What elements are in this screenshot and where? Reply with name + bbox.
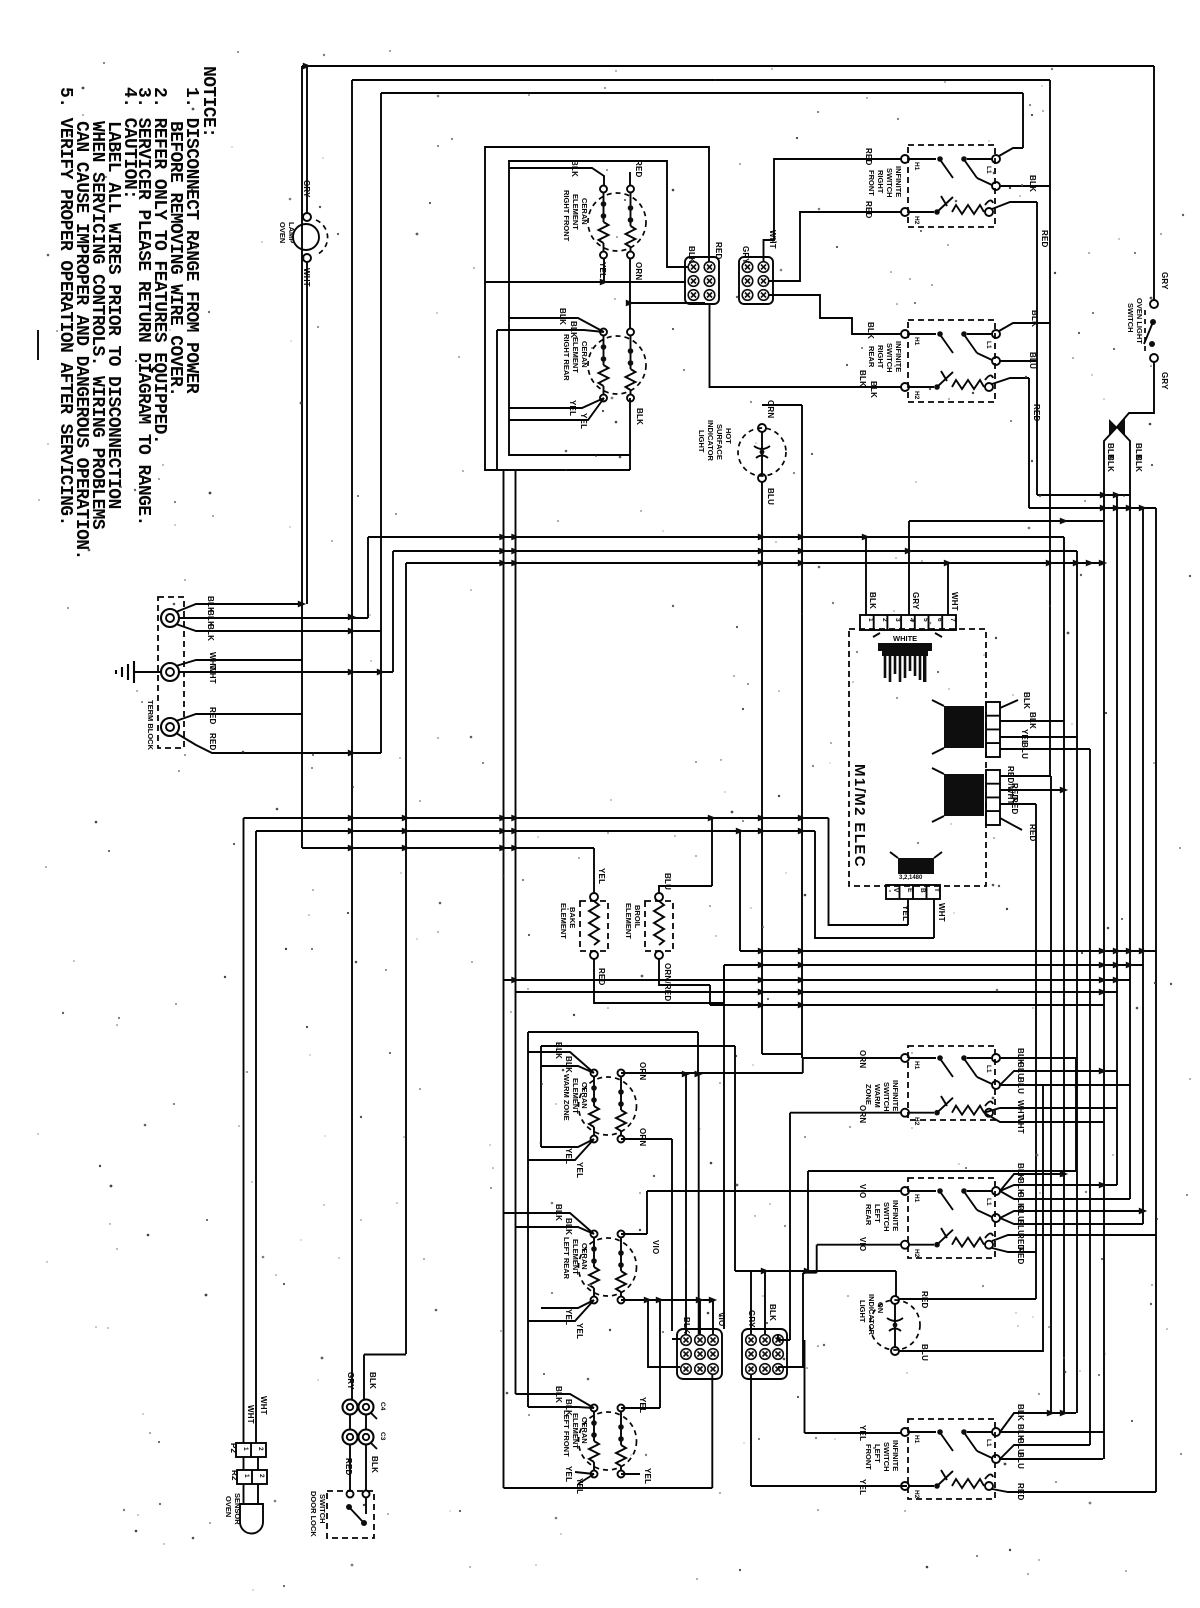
svg-text:WHT: WHT (246, 1405, 255, 1424)
svg-text:LIGHT: LIGHT (697, 430, 706, 453)
svg-text:RED: RED (864, 148, 873, 166)
svg-text:BLK: BLK (1028, 175, 1037, 192)
wire right riser RED/WHT net (1050, 776, 1052, 1413)
svg-text:YEL: YEL (638, 1397, 647, 1413)
svg-text:R2: R2 (230, 1470, 239, 1481)
svg-text:YEL: YEL (643, 1468, 652, 1484)
infinite switch left rear (901, 1178, 1000, 1258)
svg-text:BLK: BLK (554, 1204, 563, 1221)
svg-text:BLU: BLU (766, 488, 775, 505)
ceran element left rear (579, 1231, 637, 1304)
svg-text:INFINITE: INFINITE (891, 1080, 900, 1111)
wire BLK feed L2 (second line) (352, 80, 1050, 1346)
svg-text:C3: C3 (379, 1432, 386, 1441)
svg-text:WHITE: WHITE (893, 634, 917, 643)
svg-text:BLK: BLK (1022, 692, 1031, 709)
wire RED cross feed lower (1029, 507, 1156, 509)
svg-text:LIGHT: LIGHT (858, 1300, 867, 1323)
wire WHT oven sensor risers (244, 818, 257, 1443)
svg-text:H1: H1 (913, 1194, 920, 1203)
svg-text:WHT: WHT (950, 592, 959, 611)
SEC-JUNCTIONS (298, 63, 1147, 1417)
wire riser to bus B (392, 551, 394, 672)
wire WHT P2 drop to bus E (815, 831, 934, 938)
wire ORN broil bottom (659, 959, 710, 1005)
wire YEL left rear bottom fan (528, 1300, 594, 1321)
wire riser to bus A (367, 537, 369, 618)
wire ORN warm zone right bottom (621, 1139, 672, 1331)
wire bus H lower 2 (724, 965, 1143, 1329)
oven light switch (1126, 272, 1169, 390)
wire GRY pin4 riser (909, 521, 1103, 615)
wire bus I lower 3 (504, 979, 1131, 981)
wire bus A (upper) (368, 536, 1064, 538)
wire BLK terminal fan 2 (179, 617, 368, 619)
svg-text:INFINITE: INFINITE (894, 166, 903, 197)
svg-text:RED: RED (1040, 230, 1049, 248)
wire RED switch RF out down right (992, 202, 1037, 495)
svg-text:BLK: BLK (1106, 455, 1115, 472)
wire box around right surface elements (inner) (509, 161, 688, 455)
svg-text:LEFT: LEFT (873, 1444, 882, 1463)
svg-text:H1: H1 (913, 1061, 920, 1070)
svg-text:H2: H2 (913, 1490, 920, 1499)
svg-text:BLK: BLK (564, 1218, 573, 1235)
SEC-MIDLEFT (116, 537, 406, 1354)
svg-text:ELEMENT: ELEMENT (571, 337, 580, 373)
wire vertical T2 continuation right side (1049, 80, 1051, 775)
wire connector D col3 top jog (778, 1334, 790, 1340)
svg-text:5: 5 (922, 618, 929, 622)
svg-text:VIO: VIO (858, 1237, 867, 1251)
wire element RF right-bottom / RR right-top (630, 259, 705, 328)
wire riser BLU mid (on indicator feed) (1042, 1085, 1044, 1352)
ceran element right front (588, 186, 646, 259)
svg-text:RED: RED (920, 1291, 929, 1309)
wire RED on indicator (899, 1298, 1036, 1300)
terminal ring WHT (161, 663, 179, 681)
svg-text:ELEMENT: ELEMENT (571, 1078, 580, 1114)
svg-text:LEFT FRONT: LEFT FRONT (562, 1410, 571, 1457)
wire right riser BLU net (1089, 749, 1091, 1445)
svg-text:RIGHT: RIGHT (876, 345, 885, 369)
wire VIO feed to left rear switch H1 (647, 1190, 901, 1192)
svg-text:7: 7 (949, 618, 956, 622)
SEC-M1M2 (815, 521, 1103, 938)
wire box around right surface elements (outer) (485, 147, 709, 470)
control board M1/M2 ELEC dashed outline (849, 629, 986, 886)
bake element (559, 893, 608, 959)
infinite switch left front (901, 1419, 1000, 1499)
svg-text:SWITCH: SWITCH (885, 168, 894, 198)
svg-text:RED: RED (1032, 404, 1041, 422)
wire YEL left front bottom fan (575, 1472, 594, 1484)
terminal block dashed outline (158, 597, 184, 748)
terminal ring BLK (161, 609, 179, 627)
svg-text:BLU: BLU (920, 1344, 929, 1361)
wire bus G lower 1 (740, 831, 1156, 951)
SEC-NOTICE (38, 66, 218, 560)
svg-text:OVEN LIGHT: OVEN LIGHT (1135, 298, 1144, 344)
SEC-FRAMES (278, 66, 1169, 1459)
wire RED switch RR out down to lower feed (992, 378, 1029, 508)
wire connector D col1 drop to rail right (751, 1375, 907, 1486)
svg-text:BLU: BLU (1016, 1077, 1025, 1094)
wire element RR bottom right BLK (629, 398, 631, 470)
wire BLK switch RF L2 to feed L2 (1000, 185, 1050, 187)
svg-text:1: 1 (243, 1474, 250, 1478)
svg-text:BLK: BLK (635, 408, 644, 425)
wire YEL left front right bottom (621, 1473, 640, 1475)
oven lamp (278, 66, 328, 604)
svg-text:GRY: GRY (1160, 272, 1169, 290)
wire WHT warm zone out (984, 1108, 1117, 1122)
svg-text:VIO: VIO (858, 1184, 867, 1198)
svg-text:2: 2 (881, 618, 888, 622)
svg-text:YEL: YEL (575, 1162, 584, 1178)
svg-text:HOT: HOT (724, 428, 733, 444)
svg-text:1: 1 (242, 1447, 249, 1451)
svg-text:ELEMENT: ELEMENT (571, 1239, 580, 1275)
svg-text:WHT: WHT (937, 903, 946, 922)
svg-text:SWITCH: SWITCH (318, 1494, 327, 1524)
svg-text:TERM BLOCK: TERM BLOCK (146, 700, 155, 751)
svg-text:RED: RED (1016, 1247, 1025, 1265)
svg-text:L1: L1 (985, 1198, 992, 1206)
svg-text:WARM: WARM (873, 1084, 882, 1108)
svg-text:H1: H1 (913, 162, 920, 171)
SEC-BOTSW (647, 1046, 1156, 1501)
ground symbol (116, 661, 161, 683)
svg-text:BLK: BLK (554, 1386, 563, 1403)
wire right riser BLK net (M1 to switches) (1063, 537, 1065, 1413)
svg-text:C4: C4 (379, 1402, 386, 1411)
wire BLK P4-2 (1000, 720, 1064, 722)
connector P2 bottom BLACK (886, 852, 942, 899)
wire YEL bake top (593, 848, 595, 893)
on indicator light (858, 1294, 920, 1355)
wire WHT terminal fan 2 (179, 671, 393, 673)
svg-text:RED: RED (864, 201, 873, 219)
connector P5 side 4-pin (932, 768, 1000, 825)
SEC-TOPRIGHT (710, 80, 1157, 775)
wire ORN warm zone right top (621, 1058, 803, 1073)
wire RED P5-2 (1000, 789, 1064, 791)
svg-text:BLK: BLK (368, 1372, 377, 1389)
infinite switch right rear (901, 320, 1000, 402)
wire riser surface box left pair (504, 470, 516, 1488)
svg-text:RED: RED (1016, 1483, 1025, 1501)
SEC-BAKEBROIL (504, 818, 1157, 1329)
SEC-SENSOR (224, 818, 406, 1538)
svg-text:FRONT: FRONT (867, 170, 876, 196)
svg-text:YEL: YEL (564, 1148, 573, 1164)
svg-text:H1: H1 (913, 1435, 920, 1444)
svg-text:FRONT: FRONT (864, 1444, 873, 1470)
wire BLK pin1 riser (865, 537, 867, 615)
wire small underline mark (37, 330, 39, 360)
svg-text:INFINITE: INFINITE (894, 341, 903, 372)
svg-text:YEL: YEL (564, 1309, 573, 1325)
svg-text:WARM ZONE: WARM ZONE (562, 1074, 571, 1121)
svg-text:BAKE: BAKE (568, 907, 577, 928)
svg-text:ORN: ORN (858, 1105, 867, 1123)
wire RED terminal fan 2 (176, 733, 381, 753)
svg-text:GRY: GRY (911, 592, 920, 610)
svg-text:BLK: BLK (768, 1304, 777, 1321)
wire VIO feed to left rear switch H2 (803, 1245, 901, 1367)
svg-text:YEL: YEL (598, 262, 607, 278)
svg-text:H2: H2 (913, 1117, 920, 1126)
svg-text:BLK: BLK (1030, 310, 1039, 327)
wire bus F (bake feed) (302, 847, 594, 849)
svg-text:BLK: BLK (687, 246, 696, 263)
svg-text:BLK: BLK (569, 321, 578, 338)
svg-text:SENSOR: SENSOR (233, 1493, 242, 1525)
splice crossover (bowtie) (1109, 419, 1125, 437)
svg-text:VIO: VIO (717, 1312, 726, 1326)
svg-text:ORN/RED: ORN/RED (663, 963, 672, 1001)
svg-text:WHT: WHT (208, 665, 217, 684)
svg-text:ON: ON (876, 1302, 885, 1313)
wire right riser outer 3 (1155, 508, 1157, 1492)
svg-text:L1: L1 (985, 341, 992, 349)
svg-text:BLK: BLK (570, 160, 579, 177)
svg-text:ELEMENT: ELEMENT (571, 1413, 580, 1449)
svg-text:YEL: YEL (564, 1466, 573, 1482)
svg-text:BLK: BLK (1016, 1404, 1025, 1421)
svg-text:WHT: WHT (302, 268, 311, 287)
svg-text:LEFT: LEFT (873, 1204, 882, 1223)
svg-text:ELEMENT: ELEMENT (559, 903, 568, 939)
svg-text:T: T (933, 888, 940, 892)
svg-text:YEL: YEL (575, 1323, 584, 1339)
ceran element left front (579, 1405, 637, 1478)
svg-text:3: 3 (894, 618, 901, 622)
ceran element warm zone (579, 1070, 637, 1143)
wire BLK left front L1 out (1000, 1413, 1103, 1432)
svg-text:RIGHT FRONT: RIGHT FRONT (562, 190, 571, 242)
svg-text:BLK: BLK (370, 1456, 379, 1473)
wire BLU on indicator (899, 1350, 1043, 1352)
svg-text:H2: H2 (913, 391, 920, 400)
oven sensor bulb (224, 1484, 263, 1534)
svg-text:BLK: BLK (558, 308, 567, 325)
connector R2 oven sensor (230, 1457, 267, 1484)
svg-text:YEL: YEL (901, 905, 910, 921)
svg-text:CERAN: CERAN (580, 1243, 589, 1270)
wire RED left rear out (992, 1235, 1156, 1252)
wire box around on indicator (735, 1271, 896, 1296)
wire RED / BLK to door lock switch (350, 1445, 366, 1491)
wire BLU warm zone L2 out (1000, 1071, 1130, 1085)
svg-text:ORN: ORN (858, 1050, 867, 1068)
connector block B (739, 230, 777, 304)
wire BLK terminal fan 1 (176, 604, 302, 612)
wire BLK left front top fan (516, 1394, 595, 1408)
wire BLU P4-4 (1000, 748, 1090, 750)
svg-text:RED: RED (1010, 797, 1019, 815)
svg-text:RED: RED (208, 733, 217, 751)
infinite switch right front (901, 145, 1000, 227)
wire BLK warm zone top fan (528, 1052, 594, 1073)
terminal ring RED (161, 718, 179, 736)
wire BLU broil top (659, 818, 712, 893)
svg-text:INDICATOR: INDICATOR (867, 1294, 876, 1336)
svg-text:1: 1 (867, 618, 874, 622)
svg-text:BLK: BLK (869, 381, 878, 398)
svg-text:RED: RED (714, 242, 723, 260)
svg-text:RED: RED (597, 968, 606, 986)
svg-text:BLK: BLK (206, 624, 215, 641)
wire riser bus C to door lock run (405, 563, 407, 1354)
svg-text:REAR: REAR (867, 346, 876, 368)
svg-text:BLK: BLK (554, 1042, 563, 1059)
svg-text:E: E (906, 888, 913, 893)
wire BLU switch RR L2 (1000, 360, 1037, 362)
svg-text:GRY: GRY (302, 180, 311, 198)
svg-text:SWITCH: SWITCH (882, 1082, 891, 1112)
wire YEL left front right top (621, 1407, 660, 1409)
wire ORN feed to warm zone switch H1 (803, 1057, 901, 1059)
wire stubs element RF top (509, 168, 630, 185)
svg-text:V: V (892, 888, 899, 893)
wire RED connector B to switch right front H2 (768, 212, 901, 281)
wire WHT pin7 riser (947, 563, 949, 615)
wire bus D (sensor feed upper) (244, 817, 829, 819)
svg-text:ELEMENT: ELEMENT (624, 903, 633, 939)
SEC-TOPMID (485, 147, 777, 470)
wire hot surface light lower riser (762, 482, 803, 1054)
svg-text:BLU: BLU (1020, 742, 1029, 759)
connector C4 door lock (343, 1400, 387, 1420)
wire RED terminal fan 1 (176, 714, 302, 721)
wire YEL P4-3 (1000, 736, 1077, 738)
connector C3 door lock (343, 1415, 387, 1449)
svg-text:BLK: BLK (858, 370, 867, 387)
wire bottom rail left (504, 1487, 713, 1489)
svg-text:INFINITE: INFINITE (891, 1200, 900, 1231)
broil element (624, 893, 673, 959)
wire YEL warm zone bottom fan (528, 1139, 594, 1160)
wire BLU left front L2 out (1000, 1445, 1103, 1459)
door lock switch (309, 1491, 374, 1539)
svg-text:SWITCH: SWITCH (882, 1442, 891, 1472)
wire WHT terminal fan 1 (176, 660, 302, 666)
svg-text:RIGHT: RIGHT (876, 170, 885, 194)
svg-text:RIGHT REAR: RIGHT REAR (562, 334, 571, 381)
wire BLK left rear L1 out (1000, 1174, 1130, 1199)
svg-text:BLK: BLK (868, 592, 877, 609)
svg-text:H2: H2 (913, 1249, 920, 1258)
harness WHITE bundle (873, 633, 942, 682)
wire connector C feeds (648, 1074, 713, 1367)
svg-text:BLK: BLK (1028, 712, 1037, 729)
svg-text:ELEMENT: ELEMENT (571, 194, 580, 230)
wire connector C col3 drop to rail (711, 1375, 713, 1488)
svg-text:P2: P2 (229, 1443, 238, 1454)
wire element RF bottom to connector row (485, 259, 686, 282)
wire right riser outer 1 (1116, 495, 1118, 1185)
svg-text:DOOR LOCK: DOOR LOCK (309, 1491, 318, 1537)
svg-text:BROIL: BROIL (633, 905, 642, 929)
wire BLU left rear L2 out (1000, 1211, 1143, 1224)
svg-text:YEL: YEL (568, 400, 577, 416)
wire right riser YEL net (1076, 551, 1078, 1413)
svg-text:BLU: BLU (1028, 352, 1037, 369)
svg-text:SWITCH: SWITCH (885, 343, 894, 373)
wire bus E (sensor feed lower) (256, 830, 815, 832)
svg-text:YEL: YEL (597, 868, 606, 884)
wire BLK switch RF L1 up to feed L3 (999, 93, 1023, 156)
SEC-BOTLEFT (504, 1032, 908, 1494)
svg-text:GRY: GRY (1160, 372, 1169, 390)
wire BLK switch RR L1 up-right (999, 323, 1050, 331)
wire GRY door lock riser (351, 1346, 353, 1399)
wire BLK connector B to switch right rear H1 (768, 295, 901, 334)
connector P4 side 4-pin (932, 700, 1000, 757)
svg-text:3,2,1480: 3,2,1480 (899, 875, 923, 881)
wire riser RED mid (on indicator feed) (1035, 804, 1037, 1299)
svg-text:GRY: GRY (346, 1372, 355, 1390)
svg-text:M1/M2 ELEC: M1/M2 ELEC (851, 764, 868, 868)
wire BLK splice leg right (1117, 427, 1130, 1199)
svg-text:L1: L1 (985, 166, 992, 174)
wire YEL feed to left front switch H1 (805, 1340, 902, 1433)
svg-text:2: 2 (257, 1447, 264, 1451)
wire right riser outer 2 (1142, 508, 1144, 1224)
svg-text:YEL: YEL (579, 413, 588, 429)
wire BLK connector A to switch right rear H2 (710, 304, 902, 387)
wire bus K lower 5 (710, 1004, 1103, 1006)
wire VIO left rear right top (621, 1191, 647, 1234)
svg-text:BLK: BLK (866, 322, 875, 339)
svg-text:RED: RED (208, 707, 217, 725)
svg-text:SURFACE: SURFACE (715, 424, 724, 460)
wire bus J lower 4 (516, 991, 1118, 993)
wire BLK terminal fan 3 (176, 624, 381, 631)
wire element RR bottom left YEL (509, 398, 604, 420)
wire BLK splice leg left (1104, 427, 1117, 1459)
svg-text:2: 2 (258, 1474, 265, 1478)
wire connector D col3 row2 jog (778, 1366, 805, 1368)
connector P2 oven sensor (229, 1443, 266, 1457)
connector block C (677, 1312, 726, 1379)
svg-text:OVEN: OVEN (224, 1496, 233, 1517)
wire lower element box top 1 (528, 1032, 698, 1407)
svg-text:BLU: BLU (663, 873, 672, 890)
svg-text:ORN: ORN (638, 1128, 647, 1146)
wire hot surface light feed riser (762, 405, 802, 1058)
SEC-BUSES (244, 400, 1104, 1488)
wire RED P5-4 (1000, 818, 1022, 830)
wire lower element box top 2 (541, 1046, 735, 1271)
wire GRY from oven light switch down to splice (1117, 362, 1154, 427)
svg-text:YEL: YEL (858, 1425, 867, 1441)
svg-text:YEL: YEL (858, 1479, 867, 1495)
ceran element right rear (588, 329, 646, 402)
wire BLK door lock jog (364, 1355, 406, 1400)
svg-text:RED: RED (344, 1458, 353, 1476)
svg-text:ORN: ORN (766, 400, 775, 418)
svg-text:REAR: REAR (864, 1204, 873, 1226)
wire BLK feed L3 (third line) (381, 93, 1023, 753)
svg-text:SWITCH: SWITCH (1126, 303, 1135, 333)
connector P1 7-pin header (860, 615, 956, 630)
svg-text:BLU: BLU (1016, 1452, 1025, 1469)
wire RED/WHT P5-1 (1000, 775, 1051, 777)
wire RED connector B to infinite switch right front H1 (764, 159, 902, 262)
